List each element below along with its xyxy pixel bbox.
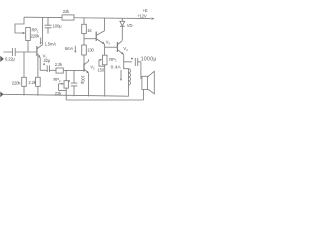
svg-text:0.4A: 0.4A bbox=[111, 64, 122, 70]
wire input line bbox=[3, 51, 36, 53]
svg-text:150: 150 bbox=[98, 67, 105, 72]
node current arrow 6mA bbox=[74, 46, 76, 52]
wire V4 emitter node bbox=[123, 54, 125, 62]
svg-text:6mA: 6mA bbox=[65, 46, 74, 51]
svg-text:V4: V4 bbox=[123, 46, 128, 52]
inductor L1 bbox=[124, 62, 129, 69]
svg-text:RP3: RP3 bbox=[109, 57, 117, 63]
svg-text:2.2k: 2.2k bbox=[28, 80, 36, 85]
resistor R1 220k bbox=[23, 52, 25, 95]
node current arrow 1.5mA bbox=[40, 38, 42, 44]
resistor R6 2.2k bbox=[56, 68, 63, 73]
wire V2 emitter to ground bbox=[88, 73, 90, 96]
resistor R2 2.2k bbox=[37, 56, 39, 96]
diode VD bbox=[121, 18, 123, 21]
wire ground rail bbox=[2, 94, 129, 96]
wire V3 emitter bbox=[104, 44, 106, 55]
capacitor C3 22u bbox=[40, 65, 56, 72]
wire V3 base bbox=[84, 38, 96, 40]
transistor V2 bbox=[83, 62, 85, 71]
svg-text:VD: VD bbox=[127, 23, 133, 28]
capacitor C2 100u bbox=[45, 18, 52, 34]
wire RP1 wiper loop bbox=[15, 17, 24, 33]
svg-text:220k: 220k bbox=[12, 80, 22, 85]
svg-text:1.5mA: 1.5mA bbox=[45, 42, 57, 47]
capacitor C5 1000u bbox=[124, 58, 141, 66]
svg-text:V2: V2 bbox=[90, 65, 95, 71]
svg-text:22μ: 22μ bbox=[44, 58, 51, 63]
resistor R3 22k bbox=[62, 15, 74, 20]
node input terminal bbox=[0, 56, 4, 62]
potentiometer RP2 bbox=[65, 70, 67, 80]
svg-text:V3: V3 bbox=[106, 40, 111, 46]
svg-text:2.2k: 2.2k bbox=[55, 62, 63, 67]
svg-text:+12V: +12V bbox=[137, 14, 147, 19]
svg-text:RP2: RP2 bbox=[53, 77, 61, 83]
node ground terminal bbox=[0, 92, 3, 98]
wire RP3 to ground bbox=[104, 65, 106, 97]
wire R6 to V2 base bbox=[63, 69, 84, 71]
resistor R4 1k bbox=[83, 18, 85, 45]
svg-text:100μ: 100μ bbox=[53, 24, 63, 29]
svg-text:130: 130 bbox=[87, 48, 94, 53]
wire speaker top bbox=[141, 62, 142, 78]
transistor V1 bbox=[36, 46, 38, 56]
svg-text:0.22μ: 0.22μ bbox=[5, 57, 16, 62]
node +E +12V arrow bbox=[151, 18, 154, 20]
transistor V3 bbox=[95, 32, 97, 42]
wire speaker bottom bbox=[66, 90, 143, 101]
svg-text:22k: 22k bbox=[63, 9, 70, 14]
svg-text:22k: 22k bbox=[55, 91, 62, 96]
speaker BL bbox=[142, 76, 148, 89]
wire V4 base bbox=[105, 46, 118, 48]
potentiometer RP3 bbox=[102, 55, 107, 65]
transistor V4 bbox=[116, 42, 118, 52]
svg-text:1000μ: 1000μ bbox=[141, 56, 157, 62]
svg-text:+E: +E bbox=[143, 8, 148, 13]
svg-text:1k: 1k bbox=[87, 28, 92, 33]
wire top supply rail bbox=[24, 17, 151, 18]
svg-text:100μ: 100μ bbox=[81, 75, 86, 85]
potentiometer RP1 bbox=[26, 28, 31, 41]
wire RP1 to base bbox=[27, 41, 29, 53]
wire V1 emitter down bbox=[39, 58, 41, 71]
node current arrow 0.4A bbox=[120, 70, 122, 79]
wire R5 to V2 collector bbox=[83, 55, 85, 62]
capacitor C1 0.22u bbox=[12, 48, 15, 56]
resistor R5 130 bbox=[82, 45, 87, 55]
svg-text:220k: 220k bbox=[31, 33, 41, 38]
capacitor C4 100u bbox=[71, 70, 78, 96]
